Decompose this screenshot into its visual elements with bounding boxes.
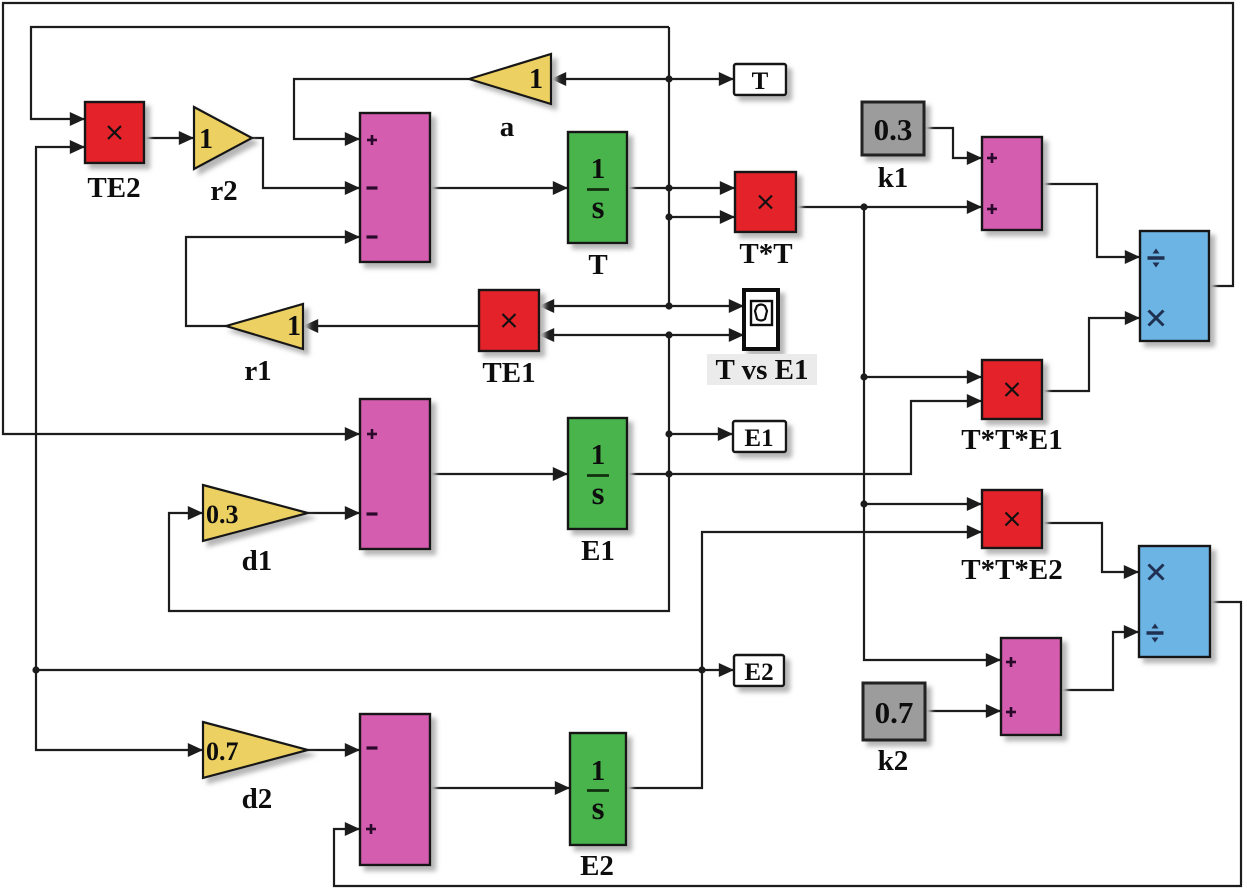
svg-text:r1: r1 [244,355,271,387]
wire net T*T vertical to Sum4 input1 [864,207,1001,660]
svg-text:E2: E2 [580,850,614,882]
gain d2 [203,722,308,778]
svg-text:T vs E1: T vs E1 [716,354,809,386]
label T vs E1 [707,354,817,386]
wire Divide1 output feedback to Sum2 plus input [3,3,1233,434]
wire TE1 output to gain r1 [303,325,479,327]
wire TE2 output to gain r2 [144,137,194,139]
wire E2 output up to T*T*E2 input2 [626,532,982,788]
wire net E2 down to gain d2 [36,670,203,750]
outport T [734,64,786,95]
wire Sum2 output to integrator E1 [430,473,568,475]
svg-text:s: s [592,791,605,827]
product T*T*E2 [982,490,1042,548]
gain d1 [203,485,308,541]
wire Sum1 output to integrator T [430,187,568,189]
wire Divide2 output feedback to Sum3 plus input [334,602,1241,886]
svg-text:a: a [500,111,515,143]
svg-text:E1: E1 [744,425,773,452]
gain r2 [194,107,252,169]
junction E2 left bus branch [32,666,39,673]
svg-text:1: 1 [591,755,606,787]
wire net T*T to T*T*E1 input1 [864,376,982,378]
wire net E2 up to TE2 input2 [36,147,85,670]
sum block Sum3 [360,714,430,865]
junction E1 to TE1/scope branch [665,331,672,338]
junction T to TE1/scope branch [665,302,672,309]
product T*T [735,172,796,232]
constant k2 [863,683,925,740]
wire net T to outport T [669,78,734,80]
wire gain r1 output to Sum1 minus2 input [186,237,360,326]
integrator E1 [568,418,627,529]
integrator T [568,132,627,243]
svg-text:1: 1 [529,64,543,95]
wire net T vertical bus [668,27,670,306]
junction T to outport branch [665,75,672,82]
wire net T to scope input1 [669,305,744,307]
product TE2 [85,102,144,163]
svg-text:T*T: T*T [739,238,792,270]
junction T output branch [665,184,672,191]
wire net E2 across to left bus [36,669,702,671]
svg-text:E1: E1 [581,535,615,567]
svg-text:T: T [588,249,607,281]
svg-text:T: T [752,68,769,95]
wire E1 output to T*T*E1 input2 [627,401,982,474]
svg-text:k1: k1 [878,162,909,194]
svg-text:TE1: TE1 [482,357,535,389]
wire net T to gain a input [551,78,669,80]
svg-text:TE2: TE2 [87,172,140,204]
wire Sum3 output to integrator E2 [430,787,570,789]
left-pointing arrowheads [303,72,566,342]
gain r1 [226,304,303,349]
svg-text:T*T*E1: T*T*E1 [961,424,1063,456]
svg-text:T*T*E2: T*T*E2 [961,554,1063,586]
wire net T*T to T*T*E2 input1 [864,503,982,505]
wire net E1 down to gain d1 [169,335,669,611]
wire gain d2 output to Sum3 minus input [308,749,360,751]
divide block Divide2 [1139,546,1210,657]
sum block Sum1 [360,113,430,262]
sum block Sum2 [360,399,430,549]
wire net T to T*T input2 [669,216,735,218]
junction T*T input2 branch [665,213,672,220]
wire Sum4 output to Divide2 input2 [1061,632,1139,690]
wire T integrator output to T*T input1 [627,187,735,189]
svg-text:s: s [592,476,605,512]
scope T vs E1 [744,290,778,349]
svg-text:d2: d2 [242,783,273,815]
svg-text:1: 1 [287,311,301,342]
wire k1 output to SumK1 input1 [924,128,982,158]
wire net E1 to TE1 input2 [539,334,669,336]
outport E1 [733,421,786,452]
svg-text:1: 1 [591,153,606,185]
svg-text:0.3: 0.3 [206,500,239,529]
constant k1 [862,102,924,155]
integrator E2 [570,733,626,845]
wire net T to TE1 input1 [539,305,669,307]
gain a [469,54,551,104]
wire gain r2 output to Sum1 minus input [252,138,360,188]
wire net E2 to outport E2 [702,669,734,671]
junction E2 outport branch [698,666,705,673]
junction T*T to T*T*E2 branch [860,500,867,507]
svg-text:E2: E2 [744,659,773,686]
wire arrowheads [70,72,1140,836]
outport E2 [734,655,784,686]
junction E1 outport branch [665,430,672,437]
svg-text:k2: k2 [878,745,909,777]
sum block Sum4 [1001,638,1061,735]
wire gain a output to Sum1 plus input [294,79,469,139]
wire gain d1 output to Sum2 minus input [308,512,360,514]
wire T*T*E2 output to Divide2 input1 [1042,523,1139,572]
svg-text:d1: d1 [242,545,273,577]
wire net T to TE2 input1 [31,27,669,119]
svg-text:1: 1 [591,439,606,471]
product T*T*E1 [982,360,1042,419]
product TE1 [479,290,539,351]
wire SumK1 output to Divide1 input1 [1042,184,1140,257]
junction T*T to T*T*E1 branch [860,373,867,380]
wire k2 output to Sum4 input2 [925,710,1001,712]
wire net E1 to outport E1 [669,433,733,435]
junction T*T output branch [860,203,867,210]
junction E1 output branch [665,470,672,477]
wire net E1 to scope input2 [669,334,744,336]
wire T*T output to SumK1 input2 [796,206,982,208]
svg-text:s: s [592,190,605,226]
svg-text:0.7: 0.7 [875,695,914,730]
svg-text:0.7: 0.7 [206,737,239,766]
svg-text:1: 1 [199,124,213,155]
divide block Divide1 [1140,231,1209,341]
wire T*T*E1 output to Divide1 input2 [1042,318,1140,391]
svg-text:r2: r2 [210,175,237,207]
sum block SumK1 [982,137,1042,230]
svg-text:0.3: 0.3 [874,112,913,147]
